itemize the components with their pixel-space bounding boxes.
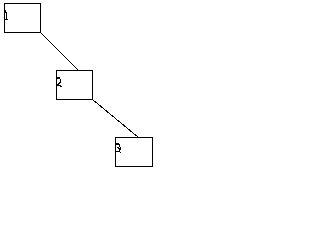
label 3 [116,143,121,153]
diagram: three-node chain graph [0,0,158,170]
wire: edge from node 1 to node 2 [41,33,78,70]
node box 2 [56,70,93,100]
node box 1 [4,3,41,33]
node box 3 [115,137,153,167]
label 1 [4,10,8,20]
label 2 [57,77,62,87]
wire: edge from node 2 to node 3 [93,100,138,137]
